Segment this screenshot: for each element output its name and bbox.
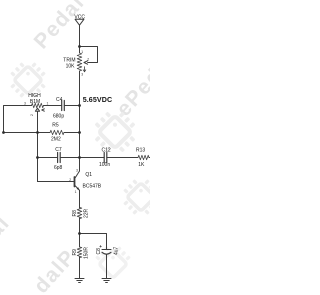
wire C7 to collector node bbox=[60, 157, 104, 159]
svg-text:22R: 22R bbox=[84, 208, 90, 218]
supply VCC symbol bbox=[75, 19, 84, 25]
wire C7 rail left bbox=[38, 157, 58, 159]
svg-text:C12: C12 bbox=[102, 147, 111, 153]
wire pot to C4 bbox=[44, 105, 62, 107]
svg-text:VCC: VCC bbox=[74, 14, 85, 20]
svg-text:2: 2 bbox=[30, 114, 34, 116]
svg-text:C7: C7 bbox=[55, 147, 62, 153]
svg-text:C4: C4 bbox=[56, 97, 63, 103]
transistor Q1 base bar bbox=[74, 177, 76, 187]
svg-text:al: al bbox=[0, 211, 14, 242]
resistor R8 zigzag bbox=[77, 207, 82, 218]
resistor R13 zigzag bbox=[138, 155, 149, 160]
wire C8 to ground bbox=[106, 254, 108, 278]
svg-text:680p: 680p bbox=[53, 113, 64, 119]
wire VCC to trim node bbox=[79, 25, 81, 53]
svg-text:R5: R5 bbox=[52, 123, 59, 129]
wire trim wiper loop bbox=[80, 47, 98, 63]
wire base rail y132 bbox=[4, 132, 51, 134]
svg-text:ePeda: ePeda bbox=[112, 54, 150, 121]
svg-text:2M2: 2M2 bbox=[51, 137, 61, 143]
capacitor C7 plates bbox=[58, 153, 61, 163]
node trim top bbox=[78, 45, 81, 48]
junction dots bbox=[2, 45, 81, 235]
wire R8 to junction bbox=[79, 218, 81, 247]
transistor Q1 emitter lead bbox=[75, 186, 79, 190]
node C7/collector bbox=[78, 156, 81, 159]
capacitor C4 plates bbox=[62, 101, 65, 111]
wire input top rail left segment bbox=[4, 106, 32, 133]
transistor Q1 collector lead bbox=[75, 171, 79, 178]
node wiper/C7 rail bbox=[36, 156, 39, 159]
node input corner bbox=[2, 131, 5, 134]
wire R9 to ground bbox=[79, 257, 81, 278]
wire junction to C8 branch bbox=[80, 234, 107, 250]
pin numbers bbox=[24, 50, 89, 194]
svg-text:BC547B: BC547B bbox=[83, 184, 102, 190]
resistor R9 zigzag bbox=[77, 247, 82, 258]
ground under C8 bbox=[102, 279, 111, 283]
svg-text:2: 2 bbox=[87, 58, 89, 62]
pot wiper mark 2 bbox=[42, 109, 45, 111]
node wiper/R5 rail bbox=[36, 131, 39, 134]
svg-text:100n: 100n bbox=[99, 162, 110, 168]
wire trim to collector node bbox=[79, 71, 81, 171]
svg-text:150R: 150R bbox=[84, 247, 90, 259]
node C4/collector bbox=[78, 104, 81, 107]
svg-text:1: 1 bbox=[75, 190, 77, 194]
trimmer wiper arrow bbox=[84, 61, 88, 64]
svg-text:1K: 1K bbox=[138, 162, 145, 168]
svg-text:3: 3 bbox=[24, 102, 26, 106]
svg-text:R13: R13 bbox=[136, 148, 145, 154]
wire R5 to collector line bbox=[64, 132, 80, 134]
svg-text:3: 3 bbox=[81, 73, 83, 77]
svg-text:R9: R9 bbox=[72, 249, 78, 256]
svg-text:10K: 10K bbox=[66, 64, 76, 70]
pot wiper arrow bbox=[35, 108, 39, 111]
svg-text:6p8: 6p8 bbox=[54, 165, 63, 171]
capacitor C12 plates bbox=[104, 153, 107, 163]
transistor Q1 emitter arrow bbox=[77, 187, 80, 190]
capacitor C8 plates bbox=[102, 250, 111, 255]
svg-text:B1M: B1M bbox=[30, 99, 40, 105]
trimmer TRIM 10K zigzag bbox=[77, 53, 82, 71]
resistor R5 zigzag bbox=[50, 130, 64, 135]
svg-text:5.65VDC: 5.65VDC bbox=[83, 96, 112, 104]
emitter wire down bbox=[79, 190, 81, 208]
node emitter junction bbox=[78, 232, 81, 235]
wire base to Q1 bbox=[38, 181, 74, 183]
wire R13 to edge bbox=[149, 157, 150, 159]
wire wiper down bbox=[37, 111, 39, 181]
svg-text:HIGH: HIGH bbox=[28, 93, 41, 99]
svg-text:R8: R8 bbox=[72, 210, 78, 217]
wire C12 to R13 bbox=[107, 157, 138, 159]
svg-text:3: 3 bbox=[76, 169, 78, 173]
svg-text:TRIM: TRIM bbox=[63, 58, 75, 64]
svg-text:+: + bbox=[99, 244, 102, 249]
node R5/collector bbox=[78, 131, 81, 134]
svg-text:1: 1 bbox=[47, 102, 49, 106]
svg-text:2: 2 bbox=[69, 178, 71, 182]
trimmer adjust arrow bbox=[83, 67, 86, 72]
svg-text:Q1: Q1 bbox=[85, 172, 92, 178]
ground under R9 bbox=[75, 279, 84, 283]
potentiometer HIGH B1M zigzag bbox=[32, 103, 44, 108]
wire C4 to collector line bbox=[64, 105, 79, 107]
svg-text:1: 1 bbox=[81, 50, 83, 54]
svg-text:4u7: 4u7 bbox=[114, 246, 120, 255]
